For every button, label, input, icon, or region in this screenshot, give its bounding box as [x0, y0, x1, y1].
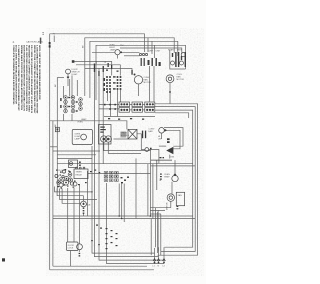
svg-text:NECESSARY. USE COPPER CONDUCTO: NECESSARY. USE COPPER CONDUCTORS ONLY AT… — [28, 45, 31, 112]
svg-text:CAUTION LABEL: CAUTION LABEL — [26, 41, 44, 44]
svg-text:DOOR SWITCHES SHOWN WITH DOOR: DOOR SWITCHES SHOWN WITH DOOR CLOSED AND… — [22, 45, 25, 111]
svg-text:COMPLETE GROUNDING DETAILS BEF: COMPLETE GROUNDING DETAILS BEFORE OPERAT… — [12, 45, 15, 105]
svg-text:3. CABINET MUST BE CONNECTED T: 3. CABINET MUST BE CONNECTED TO A GROUND… — [17, 45, 20, 111]
svg-text:2. ALL SWITCHES SHOWN IN OFF P: 2. ALL SWITCHES SHOWN IN OFF POSITION AN… — [25, 45, 28, 111]
svg-text:L1: L1 — [41, 32, 45, 36]
svg-text:WIRING TO BE CONNECTED AS SHOW: WIRING TO BE CONNECTED AS SHOWN IN DIAGR… — [33, 45, 36, 114]
svg-text:AT ALL TIMES. SEE INSTALLATION: AT ALL TIMES. SEE INSTALLATION INSTRUCTI… — [15, 45, 18, 104]
svg-text:105 C WIRE OR EQUIVALENT IF RE: 105 C WIRE OR EQUIVALENT IF REPLACEMENT … — [30, 45, 33, 114]
svg-text:NORMAL BAKE POSITION. SEE INST: NORMAL BAKE POSITION. SEE INSTALLATION I… — [20, 45, 23, 110]
svg-text:4.: 4. — [13, 40, 15, 44]
svg-text:NOTE: UNIT MUST BE GROUNDED AN: NOTE: UNIT MUST BE GROUNDED AND WIRED PE… — [38, 45, 41, 100]
